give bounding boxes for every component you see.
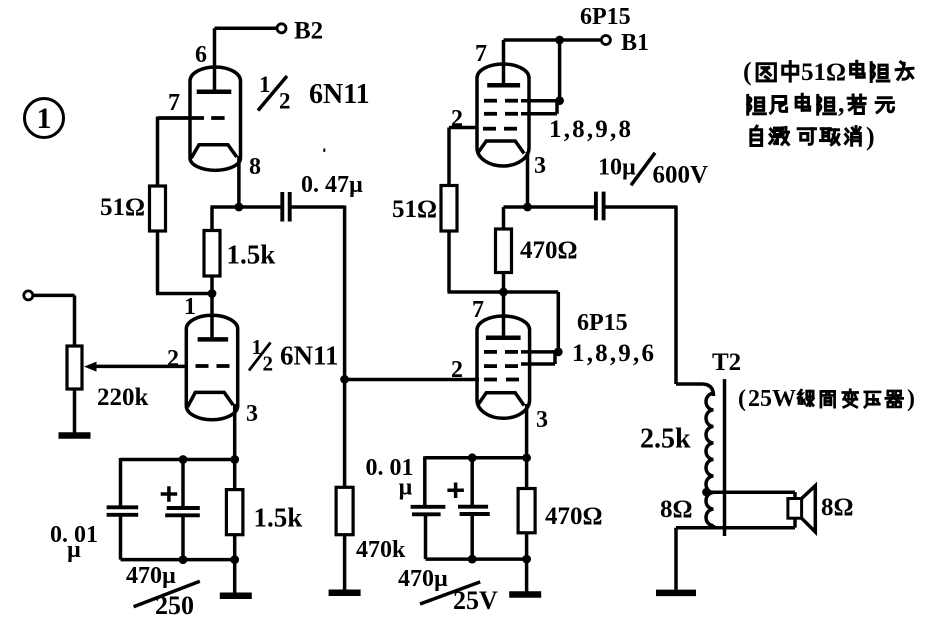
- wire: node B down into V4 plate: [502, 292, 506, 338]
- V4 grid g1 dashes: [484, 378, 519, 382]
- capacitor 470u electrolytic (left) + plus sign: [161, 460, 200, 560]
- pin label 8: [249, 154, 261, 180]
- svg-text:B1: B1: [621, 30, 649, 56]
- wire down to 470k: [343, 380, 347, 488]
- speaker 8 ohm: [788, 486, 815, 532]
- wire: 470 ohm bottom to node B: [502, 273, 506, 293]
- junction: splitter grid node: [340, 375, 349, 384]
- wire: cathode top rail: [121, 458, 236, 462]
- V2 grid (pin 2) dashes: [196, 364, 230, 368]
- svg-text:8Ω: 8Ω: [821, 494, 854, 521]
- wire: into transformer primary: [676, 384, 714, 396]
- svg-text:6P15: 6P15: [580, 4, 631, 30]
- label 51 ohm (left): [100, 194, 145, 221]
- svg-text:10µ: 10µ: [598, 155, 636, 181]
- tube V2 half 6N11 lower: envelope: [186, 315, 237, 419]
- svg-text:(: (: [738, 386, 746, 412]
- wire: V3 plate to B1: [504, 38, 602, 42]
- junction dots right top rail: [468, 453, 531, 462]
- wire: 0.47u to phase splitter grid node: [290, 206, 345, 381]
- ground (transformer): [656, 590, 696, 597]
- label 470u/25V: [398, 566, 498, 615]
- label 8 ohm (tap): [660, 496, 693, 523]
- wire: cathode node left + down to 470 ohm: [504, 207, 528, 229]
- V3 grid g2 dashes: [484, 112, 518, 116]
- terminal B1: [601, 36, 610, 45]
- V1 cathode lead (pin 8): [237, 156, 241, 207]
- ground (pot): [59, 432, 91, 439]
- label 1/2 6N11 (lower): [249, 335, 339, 376]
- junction: 8 ohm tap: [702, 488, 710, 496]
- ground (left cathode): [220, 593, 252, 600]
- svg-text:3: 3: [534, 153, 546, 179]
- V3 cathode cup: [479, 141, 525, 154]
- svg-text:3: 3: [536, 407, 548, 433]
- wire: cathode node to 10u cap: [528, 205, 595, 209]
- svg-text:µ: µ: [399, 475, 413, 501]
- ground (right cathode): [509, 591, 541, 598]
- svg-text:7: 7: [168, 90, 180, 116]
- V3 grid g1 dashes: [483, 127, 517, 131]
- pin label 2 (V4): [451, 357, 463, 383]
- svg-text:1: 1: [37, 102, 52, 135]
- label 6P15 (upper): [580, 4, 631, 30]
- ground (470k): [329, 590, 361, 597]
- svg-text:6N11: 6N11: [280, 341, 339, 371]
- svg-text:0. 47µ: 0. 47µ: [301, 172, 363, 198]
- label 470 ohm (upper): [520, 237, 578, 264]
- svg-text:220k: 220k: [97, 384, 149, 411]
- wire: V3 grid out left and down: [449, 128, 477, 186]
- speck: [323, 149, 325, 152]
- svg-text:T2: T2: [712, 349, 741, 376]
- label 220k: [97, 384, 149, 411]
- label 470u/250: [126, 563, 200, 620]
- svg-text:): ): [866, 122, 875, 151]
- wire: 470k to ground: [343, 535, 347, 590]
- resistor 470 ohm (lower): [518, 458, 535, 560]
- junction: V4 screen: [554, 348, 563, 357]
- pin label 3 (V4): [536, 407, 548, 433]
- pin label 6: [195, 42, 207, 68]
- svg-text:(: (: [743, 57, 752, 86]
- svg-text:,: ,: [838, 89, 845, 118]
- svg-text:2.5k: 2.5k: [640, 424, 691, 455]
- wire: node B right and down to V4 screen: [504, 292, 559, 352]
- junction dots right bottom rail: [468, 555, 531, 564]
- annotation line 1: (tu zhong 51 ohm dian zu wei: [743, 57, 913, 86]
- wire: grid node to V4 grid: [345, 378, 479, 382]
- capacitor 0.01u (left): [107, 458, 139, 560]
- label 51 ohm (right): [392, 196, 437, 223]
- svg-text:2: 2: [279, 89, 291, 114]
- annotation: (25W line transformer): [738, 386, 915, 412]
- junction: screen to B1 riser: [555, 40, 564, 105]
- svg-text:1,8,9,6: 1,8,9,6: [572, 340, 656, 367]
- figure number 1 (circled): [25, 99, 64, 138]
- wire: 51 ohm bottom to node B: [448, 231, 504, 292]
- capacitor 0.47u coupling: [282, 192, 289, 222]
- pin label 7 (V4): [472, 297, 484, 323]
- svg-text:51Ω: 51Ω: [100, 194, 145, 221]
- V4 screen tap bracket: [521, 352, 558, 364]
- svg-text:1.5k: 1.5k: [254, 503, 303, 533]
- junction dots top rail: [179, 455, 240, 464]
- label pins 1,8,9,8: [549, 116, 633, 143]
- pin label 2: [167, 346, 179, 372]
- pin label 7 (V3): [475, 41, 487, 67]
- junction node A (grid of V2): [208, 289, 217, 298]
- V3 grid g3 dashes: [484, 99, 518, 103]
- svg-text:): ): [907, 386, 915, 412]
- label 470 ohm (lower): [545, 503, 603, 530]
- svg-text:1: 1: [184, 294, 196, 320]
- wire to ground (right channel): [525, 559, 529, 592]
- svg-text:470Ω: 470Ω: [520, 237, 578, 264]
- svg-text:7: 7: [475, 41, 487, 67]
- wire: right cathode top rail: [425, 456, 528, 460]
- svg-text:2: 2: [451, 357, 463, 383]
- V1 grid (pin 7) dashed line: [158, 116, 225, 120]
- svg-text:2: 2: [263, 352, 274, 376]
- label 1.5k (lower): [254, 503, 303, 533]
- transformer core line: [723, 379, 727, 536]
- V3 plate (pin 7) with anode lead: [487, 40, 520, 85]
- V2 cathode lead (pin 3): [233, 404, 237, 460]
- resistor 51 ohm (left damping): [150, 186, 166, 231]
- V4 grid g2 dashes: [484, 364, 518, 368]
- svg-text:8Ω: 8Ω: [660, 496, 693, 523]
- wire: tap to speaker (top): [706, 492, 795, 498]
- resistor 1.5k (V1 cathode): [204, 231, 220, 277]
- label 470k: [356, 537, 406, 563]
- svg-text:51Ω: 51Ω: [801, 59, 846, 86]
- pin label 7: [168, 90, 180, 116]
- V2 cathode cup: [188, 392, 234, 407]
- wire: V1 grid down to 51 ohm resistor: [156, 117, 160, 187]
- label B1: [621, 30, 649, 56]
- resistor 51 ohm (right damping): [441, 186, 457, 232]
- label 2.5k: [640, 424, 691, 455]
- svg-text:7: 7: [472, 297, 484, 323]
- wire: pot bottom to ground: [73, 389, 77, 433]
- capacitor 0.01u (right): [411, 456, 446, 559]
- V4 cathode lead (pin 3): [525, 404, 529, 458]
- resistor 1.5k (V2 cathode): [226, 460, 243, 561]
- svg-text:6: 6: [195, 42, 207, 68]
- resistor 470k: [336, 487, 353, 534]
- svg-text:1,8,9,8: 1,8,9,8: [549, 116, 633, 143]
- label 1.5k (upper): [227, 240, 276, 270]
- junction node B: [499, 288, 508, 297]
- label 10u/600V: [598, 153, 708, 189]
- V4 cathode cup: [479, 393, 525, 406]
- svg-text:6P15: 6P15: [577, 310, 628, 336]
- svg-text:25V: 25V: [453, 586, 498, 615]
- pin label 1: [184, 294, 196, 320]
- svg-text:2: 2: [167, 346, 179, 372]
- junction node pin8/1.5k/cap: [235, 203, 244, 212]
- svg-text:470µ: 470µ: [126, 563, 176, 589]
- wire: winding bottom to speaker and ground: [676, 518, 795, 589]
- potentiometer wiper arrow: [84, 362, 97, 372]
- tube V1 half 6N11 upper: envelope: [190, 67, 241, 170]
- svg-text:250: 250: [155, 591, 194, 620]
- tube V3 6P15 upper: envelope: [477, 64, 529, 166]
- V3 cathode lead (pin 3): [526, 152, 530, 207]
- wire: 51 ohm bottom to junction node A: [156, 231, 212, 294]
- wire to ground (left channel): [233, 560, 237, 594]
- svg-text:8: 8: [249, 154, 261, 180]
- svg-text:25W: 25W: [748, 386, 796, 412]
- wire: 1.5k bottom to node A: [210, 276, 214, 294]
- svg-text:470k: 470k: [356, 537, 406, 563]
- label 0.01u (left): [50, 522, 98, 563]
- junction dot on B1 line: [555, 36, 564, 45]
- terminal B2: [277, 24, 286, 33]
- label B2: [294, 18, 323, 45]
- svg-text:3: 3: [246, 401, 258, 427]
- label 0.01u (right): [366, 455, 414, 501]
- svg-text:1.5k: 1.5k: [227, 240, 276, 270]
- capacitor 470u electrolytic (right) + plus sign: [447, 458, 489, 559]
- wire: input to potentiometer: [33, 295, 75, 346]
- junction: V3 cathode node: [523, 203, 532, 212]
- V1 cathode cup: [191, 145, 237, 158]
- label 6P15 (lower): [577, 310, 628, 336]
- tube V4 6P15 lower: envelope: [477, 316, 530, 418]
- svg-text:6N11: 6N11: [309, 79, 370, 110]
- wire: cathode bottom rail: [121, 558, 236, 562]
- pin label 2 (V3): [451, 106, 463, 132]
- label T2: [712, 349, 741, 376]
- label pins 1,8,9,6: [572, 340, 656, 367]
- label 0.47u: [301, 172, 363, 198]
- V3 screen tap bracket: [521, 101, 560, 114]
- wire: 10u cap to transformer: [604, 206, 676, 385]
- transformer T2 winding 2.5k/8 ohm: [706, 393, 714, 525]
- V4 grid g3 dashes: [484, 350, 518, 354]
- label 8 ohm (speaker): [821, 494, 854, 521]
- annotation line 3: zi ji ke qu xiao): [751, 122, 875, 151]
- potentiometer 220k body: [67, 346, 82, 389]
- annotation line 2: zu ni dian zu, ruo wu: [748, 89, 894, 118]
- svg-text:1: 1: [259, 72, 271, 97]
- junction dots bottom rail: [179, 555, 240, 564]
- svg-text:µ: µ: [67, 537, 81, 563]
- svg-text:470Ω: 470Ω: [545, 503, 603, 530]
- wire: 1.5k top to pin8 node: [211, 207, 282, 231]
- V1 plate (pin 6) with anode lead: [197, 28, 232, 91]
- pin label 3 (V3): [534, 153, 546, 179]
- svg-text:B2: B2: [294, 18, 323, 45]
- wire: right cathode bottom rail: [426, 557, 527, 561]
- V4 plate (pin 7): [486, 335, 521, 340]
- wire: node A down into V2 plate: [210, 294, 214, 340]
- capacitor 10u 600V: [596, 192, 604, 221]
- wire: wiper to V2 grid: [90, 365, 186, 369]
- svg-text:470µ: 470µ: [398, 566, 448, 592]
- input terminal: [24, 291, 33, 300]
- pin label 3: [246, 401, 258, 427]
- label 1/2 6N11 (upper): [258, 72, 370, 114]
- V2 plate (pin 1): [198, 337, 229, 342]
- svg-text:51Ω: 51Ω: [392, 196, 437, 223]
- svg-text:600V: 600V: [653, 162, 709, 189]
- resistor 470 ohm (upper): [496, 229, 512, 273]
- wire: V1 plate to B2: [215, 27, 278, 31]
